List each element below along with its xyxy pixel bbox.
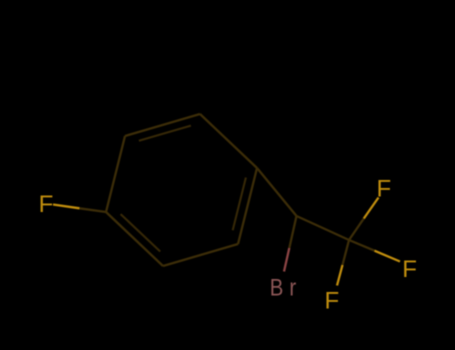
bond F-ring: F half (yellow) — [53, 205, 80, 209]
bond C-Br: C half (olive) — [289, 216, 296, 248]
benzene ring edge e5 (C2-C3) — [163, 244, 238, 266]
bond CF3 to top F: F half (yellow) — [364, 198, 379, 219]
bond F-ring: C half (olive) — [80, 208, 107, 212]
bond CF3 to right F: F half (yellow) — [375, 251, 401, 262]
bond ring C1 to CHBr carbon — [257, 168, 297, 216]
svg-text:F: F — [377, 175, 392, 202]
svg-text:F: F — [325, 287, 340, 314]
bond CF3 to top F: C half (olive) — [349, 219, 364, 241]
benzene ring edge e6 (C3-C4) — [106, 212, 163, 266]
bond CF3 to bottom F: F half (yellow) — [337, 265, 343, 286]
bond CF3 to bottom F: C half (olive) — [343, 240, 350, 265]
benzene ring double bond inner line e6 — [121, 214, 161, 251]
benzene ring edge e4 (C1-C2) — [238, 168, 257, 244]
bond C-Br: Br half (dark red) — [284, 248, 289, 272]
benzene ring edge e2 (C5-C6) — [125, 114, 200, 136]
svg-text:F: F — [39, 191, 54, 218]
svg-text:F: F — [402, 256, 417, 283]
benzene ring edge e3 (C6-C1) — [200, 114, 257, 168]
svg-text:Br: Br — [270, 274, 302, 301]
benzene ring double bond inner line e4 — [233, 178, 246, 231]
bond CHBr-CF3 (C-C) — [297, 216, 350, 240]
benzene ring double bond inner line e2 — [139, 126, 191, 141]
bond CF3 to right F: C half (olive) — [349, 240, 375, 251]
benzene ring edge e1 (C4-C5) — [106, 136, 125, 212]
